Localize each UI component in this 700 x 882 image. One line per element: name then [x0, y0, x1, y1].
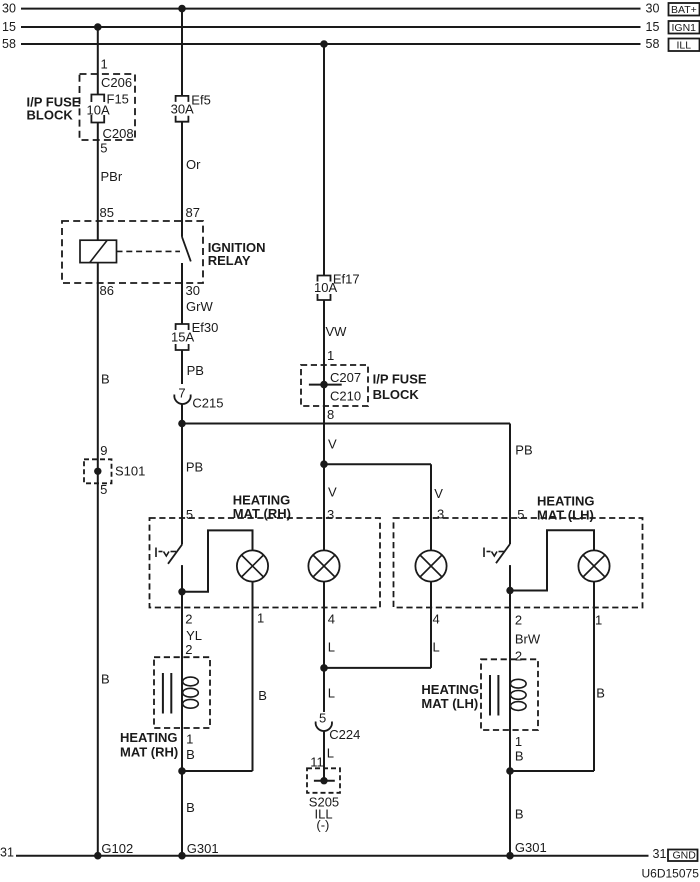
svg-text:1: 1 — [186, 732, 193, 747]
svg-text:58: 58 — [2, 37, 16, 51]
splice S205 dot — [320, 777, 327, 784]
svg-text:B: B — [258, 688, 267, 703]
heater element LH core lines — [490, 675, 498, 716]
node: G301 LH on bus 31 — [506, 852, 514, 860]
svg-text:HEATING: HEATING — [421, 682, 479, 697]
node: LH switch output junction — [506, 587, 513, 594]
svg-text:10A: 10A — [314, 280, 337, 295]
svg-text:YL: YL — [186, 628, 202, 643]
svg-text:L: L — [328, 640, 335, 655]
svg-text:Or: Or — [186, 157, 201, 172]
node: L return junction — [320, 664, 328, 672]
svg-text:GrW: GrW — [186, 299, 213, 314]
I/P fuse block dashed box (left) — [80, 74, 136, 140]
svg-text:9: 9 — [100, 443, 107, 458]
wire: C224 to S205 — [323, 731, 325, 781]
svg-text:GND: GND — [673, 850, 697, 862]
node: tap on bus 15 — [94, 23, 102, 31]
svg-text:HEATING: HEATING — [537, 493, 595, 508]
svg-text:PBr: PBr — [101, 169, 123, 184]
svg-text:B: B — [101, 372, 110, 387]
heater element RH core lines — [163, 673, 171, 714]
wire: x=182 switch down through heater element to G301 — [181, 592, 183, 856]
splice S205 dashed box — [307, 768, 340, 793]
splice S101 dashed box — [84, 459, 112, 483]
svg-text:58: 58 — [646, 37, 660, 51]
svg-text:15: 15 — [2, 20, 16, 34]
svg-text:C210: C210 — [330, 389, 361, 404]
wire: GrW from relay to fuse Ef30 — [181, 263, 183, 324]
svg-text:B: B — [186, 800, 195, 815]
relay contact blade 87-30 — [182, 237, 191, 262]
RH switch thermal actuator — [156, 548, 176, 558]
node: G301 on bus 31 — [178, 852, 186, 860]
svg-text:1: 1 — [101, 57, 108, 72]
svg-text:87: 87 — [186, 205, 200, 220]
wire: L down to C224 — [323, 668, 325, 712]
LH switch thermal actuator — [484, 548, 504, 558]
wire: B from relay coil to S101 and G102 — [97, 263, 99, 856]
node: tap on bus 30 — [178, 5, 186, 13]
heater element LH coil — [511, 679, 527, 710]
wire: x=324 bus58 to fuse Ef17 — [323, 44, 325, 276]
svg-text:U6D15075: U6D15075 — [642, 867, 700, 881]
wire: x=97.8 bus15 to fuse F15 — [97, 27, 99, 95]
bus line 30 (BAT+) — [2, 2, 700, 17]
wire: x=510 switch down through heater element to G301 — [509, 591, 511, 856]
connector C215 arc — [174, 395, 190, 404]
RH mat switch blade — [168, 545, 182, 564]
svg-text:MAT (LH): MAT (LH) — [421, 696, 478, 711]
wire: C215 to junction — [181, 404, 183, 424]
svg-text:10A: 10A — [87, 103, 110, 118]
svg-text:1: 1 — [595, 613, 602, 628]
bus line 15 (IGN1) — [2, 20, 700, 34]
svg-text:5: 5 — [186, 507, 193, 522]
node: G102 on bus 31 — [94, 852, 102, 860]
svg-text:30: 30 — [186, 283, 200, 298]
connector C207/C210 dot — [320, 381, 328, 389]
wire: x=182 bus30 to fuse Ef5 — [181, 9, 183, 96]
svg-text:3: 3 — [327, 507, 334, 522]
svg-text:G301: G301 — [515, 840, 547, 855]
svg-text:ILL: ILL — [677, 40, 692, 52]
svg-text:1: 1 — [327, 348, 334, 363]
svg-text:C207: C207 — [330, 370, 361, 385]
LH mat switch blade — [496, 544, 510, 563]
svg-text:Ef5: Ef5 — [191, 92, 211, 107]
svg-text:BrW: BrW — [515, 632, 541, 647]
svg-text:PB: PB — [515, 443, 532, 458]
fuse Ef30 15A — [171, 320, 218, 350]
svg-text:B: B — [515, 749, 524, 764]
svg-text:L: L — [327, 746, 334, 761]
svg-text:5: 5 — [100, 141, 107, 156]
svg-text:B: B — [596, 686, 605, 701]
svg-text:5: 5 — [319, 711, 326, 726]
svg-text:30A: 30A — [171, 102, 194, 117]
svg-text:C215: C215 — [192, 396, 223, 411]
wire: PB down to RH mat switch — [181, 424, 183, 545]
svg-text:L: L — [328, 686, 335, 701]
svg-text:2: 2 — [515, 649, 522, 664]
svg-text:5: 5 — [517, 507, 524, 522]
svg-text:4: 4 — [433, 612, 440, 627]
lamp RH indicator (circle-X) — [237, 550, 268, 581]
svg-text:BLOCK: BLOCK — [27, 108, 74, 123]
I/P fuse block dashed box (C207/C210) — [301, 365, 368, 406]
ignition relay dashed box — [62, 221, 203, 283]
wire: LH lamp return to junction — [510, 582, 594, 771]
svg-text:L: L — [433, 640, 440, 655]
svg-text:PB: PB — [187, 363, 204, 378]
svg-text:2: 2 — [185, 642, 192, 657]
svg-text:31: 31 — [653, 847, 667, 861]
node: V branch junction — [320, 460, 328, 468]
bus line 58 (ILL) — [2, 37, 700, 52]
heating mat RH dashed box — [150, 518, 381, 608]
svg-text:RELAY: RELAY — [208, 253, 251, 268]
svg-text:2: 2 — [185, 612, 192, 627]
svg-text:2: 2 — [515, 613, 522, 628]
heating mat LH dashed box — [394, 518, 643, 608]
svg-text:B: B — [186, 747, 195, 762]
svg-text:V: V — [328, 485, 337, 500]
wire: PB down to LH mat switch — [509, 424, 511, 545]
svg-text:MAT (RH): MAT (RH) — [120, 745, 178, 760]
heater element LH dashed box — [481, 659, 538, 730]
wire: lamp return to junction — [182, 582, 253, 771]
svg-text:G102: G102 — [101, 841, 133, 856]
svg-text:G301: G301 — [187, 841, 219, 856]
svg-text:B: B — [101, 672, 110, 687]
svg-text:11: 11 — [310, 755, 324, 770]
svg-text:30: 30 — [646, 2, 660, 16]
wire: lamp returns L — [324, 582, 431, 668]
svg-text:4: 4 — [328, 612, 335, 627]
wire: LH switch to indicator lamp — [510, 530, 594, 590]
connector C207/C210 tick — [309, 384, 342, 386]
svg-text:(-): (-) — [316, 818, 329, 833]
svg-text:1: 1 — [257, 611, 264, 626]
wire: PB from Ef30 to connector C215 — [181, 350, 183, 384]
svg-text:S101: S101 — [115, 464, 145, 479]
svg-text:C206: C206 — [101, 75, 132, 90]
relay coil-contact dashed link — [117, 250, 181, 252]
svg-text:15A: 15A — [171, 330, 194, 345]
wire: RH switch lower contact — [181, 565, 183, 592]
svg-text:F15: F15 — [107, 92, 129, 107]
fuse F15 10A — [87, 92, 129, 123]
wire: LH switch lower contact — [509, 565, 511, 590]
bus line 31 (GND) — [0, 846, 698, 862]
svg-text:BAT+: BAT+ — [671, 4, 697, 16]
relay coil K (rect with diagonal) — [80, 240, 117, 262]
splice S205 stubs — [314, 780, 335, 782]
svg-text:7: 7 — [178, 386, 185, 401]
wire: VW from Ef17 down through C207 to lamps — [323, 300, 325, 550]
node: junction at C215 branch — [178, 420, 186, 428]
svg-text:C224: C224 — [329, 727, 360, 742]
node: RH switch output junction — [178, 588, 185, 595]
svg-text:IGN1: IGN1 — [672, 22, 697, 34]
splice S101 dot — [94, 468, 101, 475]
wire: Or from Ef5 to relay contact 87 — [181, 122, 183, 237]
svg-text:5: 5 — [100, 482, 107, 497]
fuse Ef5 30A — [171, 92, 211, 121]
node: RH return junction — [178, 767, 186, 775]
lamp LH illumination (circle-X) — [415, 550, 446, 581]
wire: PBr from fuse block to relay coil — [97, 123, 99, 241]
svg-text:1: 1 — [515, 734, 522, 749]
fuse Ef17 10A — [314, 272, 360, 301]
lamp RH illumination (circle-X) — [308, 550, 339, 581]
wire: V branch to LH illumination lamp — [324, 464, 431, 550]
svg-text:I/P FUSE: I/P FUSE — [373, 372, 427, 387]
svg-text:BLOCK: BLOCK — [373, 387, 420, 402]
node: tap on bus 58 — [320, 40, 328, 48]
svg-text:85: 85 — [100, 205, 114, 220]
connector C224 arc — [316, 722, 332, 731]
svg-text:3: 3 — [437, 507, 444, 522]
svg-text:86: 86 — [100, 283, 114, 298]
heater element RH dashed box — [154, 657, 210, 728]
svg-text:Ef30: Ef30 — [192, 320, 219, 335]
svg-text:15: 15 — [646, 20, 660, 34]
svg-text:8: 8 — [327, 407, 334, 422]
heater element RH coil — [183, 677, 199, 708]
wire: horizontal PB feed to LH mat — [182, 423, 510, 425]
svg-text:HEATING: HEATING — [120, 730, 178, 745]
node: LH return junction — [506, 767, 514, 775]
svg-text:30: 30 — [2, 2, 16, 16]
svg-text:V: V — [328, 437, 337, 452]
svg-text:VW: VW — [326, 324, 348, 339]
svg-text:PB: PB — [186, 460, 203, 475]
svg-text:31: 31 — [0, 846, 14, 860]
svg-text:C208: C208 — [103, 126, 134, 141]
lamp LH indicator (circle-X) — [578, 550, 609, 581]
svg-text:B: B — [515, 807, 524, 822]
svg-text:MAT (LH): MAT (LH) — [537, 507, 594, 522]
svg-text:V: V — [434, 486, 443, 501]
wire: RH switch to indicator lamp — [182, 530, 253, 591]
